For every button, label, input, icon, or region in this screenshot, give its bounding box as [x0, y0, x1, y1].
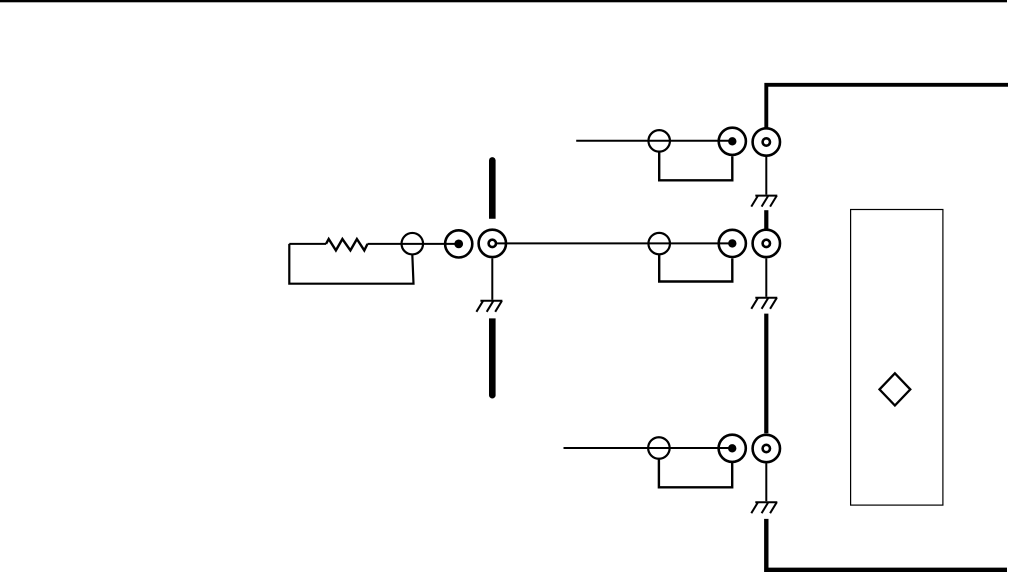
wire stub row 3: [564, 447, 733, 449]
resistor loop box: [289, 244, 413, 284]
enclosure top wall: [766, 85, 1008, 128]
connector terminal (dot) left: [445, 230, 472, 257]
resistor: [326, 239, 368, 250]
wire row 2 clamp to terminal: [496, 242, 732, 244]
ground plate box: [851, 210, 943, 506]
cable clamp left on grounding bar: [479, 230, 506, 257]
wire stub row 1: [576, 140, 732, 142]
cable clamp 2 on enclosure wall: [753, 230, 780, 257]
shield loop row 3: [659, 459, 732, 488]
enclosure wall segment between clamp 2 ground and clamp 3: [764, 314, 768, 434]
wire clamp 3 to ground: [765, 464, 767, 502]
shield loop row 1: [659, 152, 732, 181]
wire into resistor: [289, 243, 326, 245]
cable clamp 3 on enclosure wall: [753, 435, 780, 462]
open terminal circle row 3: [648, 437, 670, 459]
diamond mark on ground plate: [880, 373, 911, 405]
wire left clamp to ground: [491, 258, 493, 299]
wire clamp 1 to ground: [765, 157, 767, 195]
connector terminal (dot) row 2: [719, 230, 746, 257]
wire resistor to terminal dot: [368, 243, 459, 245]
chassis ground clamp 2: [751, 298, 777, 309]
cable clamp 1 on enclosure wall: [753, 128, 780, 155]
grounding bar lower section: [489, 318, 496, 398]
enclosure wall segment between clamp 1 ground and clamp 2: [764, 210, 768, 229]
open terminal circle left: [402, 233, 424, 255]
wire clamp 2 to ground: [765, 258, 767, 296]
chassis ground clamp 1: [751, 196, 777, 207]
open terminal circle row 2: [648, 233, 670, 255]
grounding bar upper section: [489, 157, 496, 219]
chassis ground clamp 3: [751, 502, 777, 513]
enclosure bottom wall: [766, 519, 1007, 570]
chassis ground left clamp: [476, 301, 502, 312]
connector terminal (dot) row 1: [719, 128, 746, 155]
open terminal circle row 1: [648, 130, 670, 152]
connector terminal (dot) row 3: [719, 435, 746, 462]
shield loop row 2: [659, 254, 732, 281]
